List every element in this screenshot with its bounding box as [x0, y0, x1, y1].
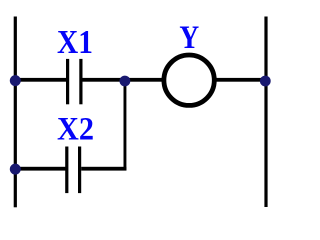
svg-text:Y: Y — [179, 20, 199, 56]
contact X2 (normally-open) — [65, 147, 81, 194]
wire: left rail to contact X2 — [14, 167, 66, 171]
svg-text:X1: X1 — [57, 24, 93, 61]
coil Y — [164, 55, 214, 105]
node: right rail / rung 1 junction — [260, 76, 271, 87]
label X2 — [57, 112, 94, 148]
node: left rail / rung 2 junction — [10, 164, 21, 175]
wire: contact X1 to node A — [83, 78, 126, 82]
label Y — [179, 20, 199, 56]
label X1 — [57, 24, 93, 61]
left power rail — [14, 17, 17, 208]
wire: coil Y to right rail — [214, 78, 266, 82]
node A (junction dot) — [120, 76, 131, 87]
right power rail — [264, 17, 267, 208]
wire: branch riser from node A down to X2 rung — [124, 81, 127, 170]
wire: left rail to contact X1 — [14, 78, 67, 82]
wire: contact X2 to branch riser — [81, 167, 126, 171]
svg-text:X2: X2 — [57, 112, 94, 148]
wire: node A to coil Y — [125, 78, 164, 82]
contact X1 (normally-open) — [66, 59, 83, 104]
node: left rail / rung 1 junction — [10, 75, 21, 86]
